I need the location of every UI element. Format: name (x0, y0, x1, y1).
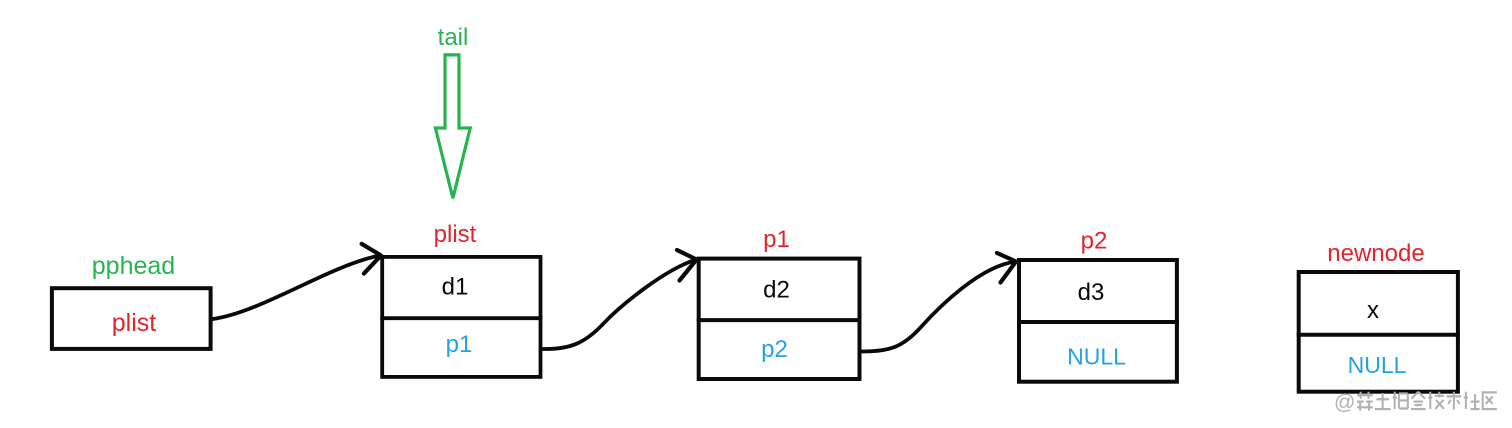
svg-text:p2: p2 (761, 336, 788, 363)
svg-text:newnode: newnode (1327, 240, 1424, 267)
svg-text:@: @ (1334, 391, 1355, 414)
box pphead (52, 288, 211, 349)
node p2 divider (1017, 320, 1179, 324)
arrowhead at p2 (997, 253, 1016, 283)
svg-text:d1: d1 (442, 274, 469, 301)
node plist divider (380, 316, 542, 320)
wire pphead to plist (213, 256, 380, 320)
watermark char jin (1411, 392, 1426, 409)
tail pointer green arrow (435, 55, 470, 198)
node newnode box (1299, 272, 1458, 392)
arrowhead at p1 (677, 250, 697, 281)
wire plist to p1 (543, 260, 696, 350)
watermark char she (1464, 392, 1480, 409)
svg-text:NULL: NULL (1348, 352, 1407, 378)
arrowhead at plist (362, 244, 381, 274)
watermark char jue (1393, 392, 1409, 409)
svg-text:p1: p1 (763, 226, 790, 253)
svg-text:d2: d2 (763, 276, 790, 303)
wire p1 to p2 (862, 262, 1016, 352)
watermark char tu (1375, 393, 1391, 409)
svg-text:d3: d3 (1078, 279, 1105, 306)
watermark char qu (1483, 392, 1497, 409)
svg-text:p1: p1 (446, 331, 473, 358)
watermark (1334, 391, 1497, 414)
node p1 divider (697, 318, 862, 322)
svg-text:pphead: pphead (92, 252, 175, 280)
svg-text:tail: tail (438, 24, 469, 51)
svg-text:plist: plist (434, 221, 477, 248)
node p1 box (699, 259, 860, 379)
node plist box (382, 257, 540, 377)
svg-text:plist: plist (112, 309, 157, 337)
node newnode divider (1297, 333, 1460, 337)
svg-text:NULL: NULL (1067, 343, 1126, 369)
node p2 box (1019, 260, 1177, 382)
svg-text:p2: p2 (1081, 228, 1108, 255)
watermark char shu (1447, 392, 1462, 410)
svg-text:x: x (1367, 297, 1379, 324)
watermark char ji (1428, 392, 1444, 409)
watermark char xi (1357, 392, 1373, 411)
